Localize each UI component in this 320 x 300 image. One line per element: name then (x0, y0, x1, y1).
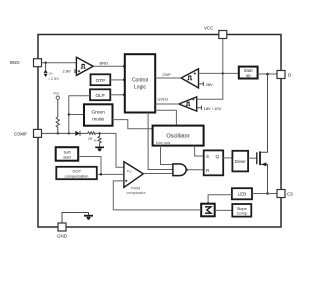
block slope comp (232, 204, 251, 217)
comparator U1 (BNO brown-out) (76, 57, 93, 75)
block OLP (90, 89, 110, 100)
svg-text:LEB: LEB (238, 192, 246, 197)
svg-text:up: up (246, 73, 251, 78)
wire VCC rail down (197, 39, 223, 99)
block oscillator (153, 126, 204, 146)
node source/CS (266, 192, 269, 195)
svg-text:OTP: OTP (96, 78, 105, 83)
wire UVLO output (155, 103, 179, 105)
node on COMP line (68, 132, 70, 134)
resistor 2R (88, 132, 100, 135)
wire PWM comp input (soft/OCP) (101, 173, 124, 175)
svg-text:mode: mode (92, 117, 104, 123)
block start up (239, 67, 258, 79)
wire node to PWM comparator top input (100, 133, 124, 167)
wire start up to D pin (258, 73, 281, 75)
resistor R (98, 133, 101, 147)
wire OLP to control logic (110, 94, 125, 96)
threshold symbol (stacked triangles) (44, 70, 48, 73)
wire tap down (45, 63, 47, 70)
wire OLP left down to COMP line (69, 96, 90, 134)
wire control logic down to AND gate (148, 113, 173, 170)
svg-text:Green: Green (92, 109, 106, 115)
block LEB (232, 188, 252, 199)
wire BNO pin to comparator (42, 62, 77, 64)
svg-text:UVLD: UVLD (158, 96, 169, 101)
wire UVLO ref input (197, 106, 202, 110)
svg-text:Max duty: Max duty (156, 141, 171, 145)
resistor R2 (Vref pull-up) (56, 117, 59, 133)
svg-text:R: R (206, 168, 209, 173)
svg-text:D: D (288, 72, 291, 77)
PWM comparator U3 (124, 162, 143, 188)
svg-text:CS: CS (287, 191, 293, 196)
wire oscillator max duty to AND (161, 146, 173, 165)
svg-text:Vref: Vref (53, 92, 59, 96)
svg-text:Logic: Logic (134, 85, 146, 91)
comparator UVLO (179, 97, 197, 111)
IC outline (38, 35, 281, 228)
node green tap (68, 113, 70, 115)
wire OVP output (155, 77, 181, 79)
wire PWM output to AND (143, 173, 173, 175)
svg-text:Oscillator: Oscillator (166, 133, 189, 139)
node after 2R (98, 132, 100, 134)
ground (COMP divider) (95, 147, 104, 151)
svg-text:PWM: PWM (131, 186, 140, 190)
wire OVP ref input (199, 82, 204, 86)
svg-text:1M: 1M (48, 72, 53, 76)
wire comparator output BNO (93, 65, 125, 67)
comparator OVP (181, 69, 198, 88)
svg-text:Q: Q (216, 154, 220, 159)
block driver (232, 151, 248, 172)
svg-text:2R: 2R (88, 137, 93, 141)
wire OVP + input to VCC rail (199, 72, 239, 74)
wire LEB to CS pin (252, 193, 281, 195)
svg-text:2.8V: 2.8V (63, 68, 72, 73)
svg-text:VCC: VCC (204, 26, 213, 31)
svg-text:18V / 10V: 18V / 10V (204, 106, 222, 111)
svg-text:28V: 28V (206, 82, 213, 87)
pin COMP (14, 129, 42, 137)
wire flip-flop to driver (223, 157, 232, 159)
block soft start (56, 147, 78, 161)
node BNO divider tap (44, 62, 46, 64)
block SR flip-flop (204, 150, 224, 175)
svg-text:Driver: Driver (235, 159, 247, 164)
svg-text:compensation: compensation (65, 174, 89, 178)
wire green mode to oscillator (113, 120, 153, 129)
svg-text:OLP: OLP (95, 93, 104, 98)
svg-text:Control: Control (132, 78, 148, 84)
pin CS (277, 190, 293, 198)
wire GND internal (62, 213, 89, 223)
Vref terminal (56, 96, 59, 99)
node on COMP line (57, 132, 59, 134)
block control logic U2 (125, 54, 155, 112)
svg-text:comparator: comparator (127, 191, 147, 195)
svg-text:Comp: Comp (237, 211, 247, 216)
wire slope comp to summer (215, 209, 233, 211)
pin GND (57, 223, 67, 239)
svg-text:FC: FC (127, 170, 132, 174)
wire COMP line (42, 132, 76, 134)
pin D (277, 71, 291, 79)
wire soft start to node (78, 157, 101, 175)
pin BNO (10, 59, 42, 67)
transistor Q1 (power MOSFET) (257, 74, 268, 194)
wire driver to gate (248, 157, 257, 159)
svg-text:COMP: COMP (14, 131, 27, 136)
block OTP (91, 74, 111, 85)
wire summer to PWM comp (113, 181, 201, 210)
wire AND output to flip-flop R (187, 169, 204, 171)
svg-text:OVP: OVP (163, 72, 172, 77)
svg-text:OCP: OCP (72, 170, 81, 174)
AND gate G1 (173, 164, 188, 176)
svg-text:start: start (63, 155, 72, 160)
svg-text:R: R (94, 139, 97, 143)
block Green mode (84, 104, 113, 125)
block OCP compensation (56, 167, 97, 179)
svg-text:GND: GND (57, 234, 67, 239)
pin VCC (204, 26, 227, 39)
wire OCP to node (97, 173, 101, 175)
wire Vref down (57, 99, 59, 117)
svg-text:S: S (206, 154, 209, 159)
diode D1 (75, 131, 87, 136)
wire oscillator to flip-flop S (195, 146, 204, 156)
wire control logic to oscillator top (155, 110, 176, 125)
wire tap to green mode (69, 114, 84, 116)
summer (slope add) (201, 204, 215, 217)
ground (GND pin) (84, 216, 93, 220)
wire LEB to summer (208, 195, 232, 204)
svg-text:BNO: BNO (100, 60, 109, 65)
wire OTP to control logic (110, 79, 125, 81)
svg-text:BNO: BNO (10, 60, 20, 65)
svg-text:/ 2.5V: / 2.5V (49, 76, 60, 81)
